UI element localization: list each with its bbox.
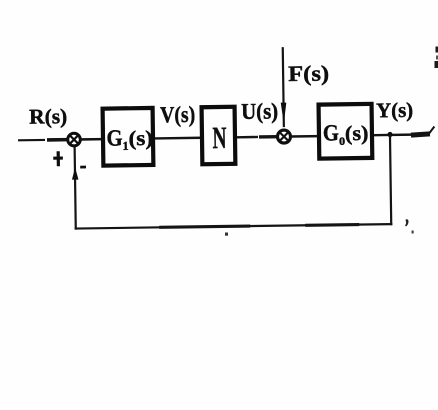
wire G0 to output: [374, 133, 412, 136]
svg-text:V(s): V(s): [160, 102, 195, 127]
wire N to S2: [237, 135, 277, 138]
wire S1 to G1: [81, 138, 103, 141]
wire G1 to N: [155, 137, 202, 140]
speck comma: [405, 219, 409, 226]
wire feedback up to S1: [75, 147, 76, 230]
speck period: [225, 233, 228, 236]
node takeoff point: [387, 132, 392, 137]
sign plus: [53, 151, 63, 166]
wire input R(s): [18, 139, 67, 142]
svg-text:(s): (s): [345, 121, 369, 145]
label G1(s): [106, 125, 153, 153]
block N: [202, 107, 236, 164]
wire disturbance F(s) vertical: [283, 47, 284, 127]
svg-text:G: G: [106, 125, 122, 150]
speck right edge: [435, 47, 438, 69]
output arrow: [411, 127, 435, 136]
svg-text:Y(s): Y(s): [376, 98, 413, 123]
arrowhead feedback into S1: [72, 167, 79, 179]
svg-text:(s): (s): [128, 126, 153, 150]
arrowhead F into S2: [281, 103, 287, 124]
sign minus: [80, 166, 86, 169]
svg-text:R(s): R(s): [29, 104, 67, 129]
wire feedback down from node: [390, 135, 391, 225]
wire feedback bottom: [75, 224, 393, 228]
summing junction S1: [68, 133, 81, 146]
svg-text:N: N: [212, 120, 226, 155]
svg-text:F(s): F(s): [288, 60, 329, 86]
block G0: [319, 104, 373, 159]
summing junction S2: [277, 130, 290, 143]
svg-text:U(s): U(s): [241, 98, 278, 124]
wire S2 to G0: [291, 135, 319, 138]
block G1: [103, 108, 154, 166]
speck dot low: [412, 231, 414, 234]
svg-text:G: G: [323, 120, 339, 145]
label G0(s): [323, 120, 369, 148]
wire feedback bottom thick segments: [159, 226, 250, 227]
